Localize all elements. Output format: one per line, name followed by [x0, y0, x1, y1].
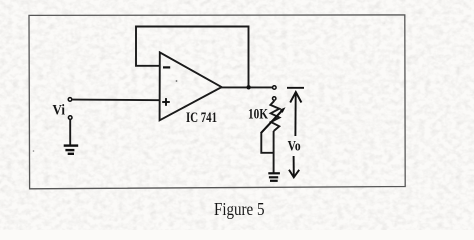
- svg-text:Figure 5: Figure 5: [214, 199, 265, 219]
- wire: op-amp output to output terminal: [221, 86, 272, 88]
- speck inside op-amp: [176, 80, 178, 82]
- op-amp inverting input "-" mark: [163, 66, 170, 68]
- input terminal (bottom, grounded): [68, 116, 72, 120]
- junction: output node: [246, 85, 250, 89]
- svg-text:IC 741: IC 741: [186, 110, 217, 126]
- ground (input side): [64, 146, 78, 154]
- output terminal: [273, 86, 277, 90]
- wire: non-inverting input from terminal to op-amp: [72, 99, 160, 102]
- potentiometer top terminal: [273, 97, 276, 100]
- potentiometer wiper arrow: [261, 107, 286, 133]
- wire: feedback loop from inverting input up and over to output node: [136, 27, 249, 87]
- wire: pot bottom down to ground: [273, 131, 275, 173]
- op-amp U1 triangle: [160, 52, 222, 120]
- ground (output side): [268, 173, 280, 181]
- svg-text:10K: 10K: [248, 106, 268, 122]
- Vo down arrow: [289, 156, 299, 177]
- potentiometer R 10K zigzag body: [270, 101, 279, 131]
- Vo reference top bar: [287, 87, 304, 89]
- input terminal (top, to non-inverting input): [68, 98, 72, 102]
- svg-text:Vo: Vo: [288, 138, 301, 154]
- wire: wiper lead down and across to pot bottom: [261, 133, 273, 153]
- svg-text:Vi: Vi: [53, 103, 66, 119]
- wire: input lower terminal to ground: [69, 120, 71, 146]
- speck inside frame near left: [33, 150, 35, 152]
- Vo up arrow: [290, 92, 301, 136]
- op-amp non-inverting input "+" mark: [162, 98, 170, 106]
